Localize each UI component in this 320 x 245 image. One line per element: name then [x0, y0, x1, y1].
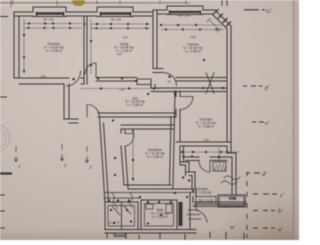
svg-text:h = 2.86 m: h = 2.86 m	[198, 125, 214, 129]
svg-text:b': b'	[278, 208, 283, 215]
svg-text:Sp = 1.30: Sp = 1.30	[109, 222, 120, 225]
svg-text:e': e'	[265, 120, 270, 127]
svg-text:h = 2.85 m: h = 2.85 m	[147, 155, 163, 159]
svg-text:1.98: 1.98	[116, 52, 122, 56]
svg-text:90 / 135: 90 / 135	[111, 18, 122, 22]
svg-text:3.23: 3.23	[122, 36, 128, 40]
svg-text:w': w'	[230, 224, 236, 231]
svg-text:Sp = 1.04: Sp = 1.04	[199, 198, 213, 202]
svg-text:c': c'	[280, 192, 285, 199]
svg-text:3.96: 3.96	[190, 35, 196, 39]
svg-text:3.45: 3.45	[203, 138, 209, 142]
svg-text:hp = 1.04: hp = 1.04	[178, 13, 190, 17]
svg-text:d': d'	[262, 171, 267, 178]
svg-text:p': p'	[264, 84, 270, 91]
svg-text:h = 2.30 m: h = 2.30 m	[152, 215, 168, 219]
svg-text:h = 2.55 m: h = 2.55 m	[46, 49, 62, 53]
svg-text:S = 1.30 mp: S = 1.30 mp	[193, 191, 211, 195]
svg-text:90 / 135: 90 / 135	[43, 18, 54, 22]
svg-text:2.36: 2.36	[119, 88, 125, 92]
svg-text:3.30: 3.30	[40, 75, 46, 79]
svg-text:h = 2.85 m: h = 2.85 m	[185, 50, 201, 54]
svg-text:em: em	[230, 198, 233, 201]
svg-text:h = 2.85 m: h = 2.85 m	[127, 103, 143, 107]
svg-text:G': G'	[266, 8, 273, 15]
svg-text:a': a'	[278, 226, 283, 233]
